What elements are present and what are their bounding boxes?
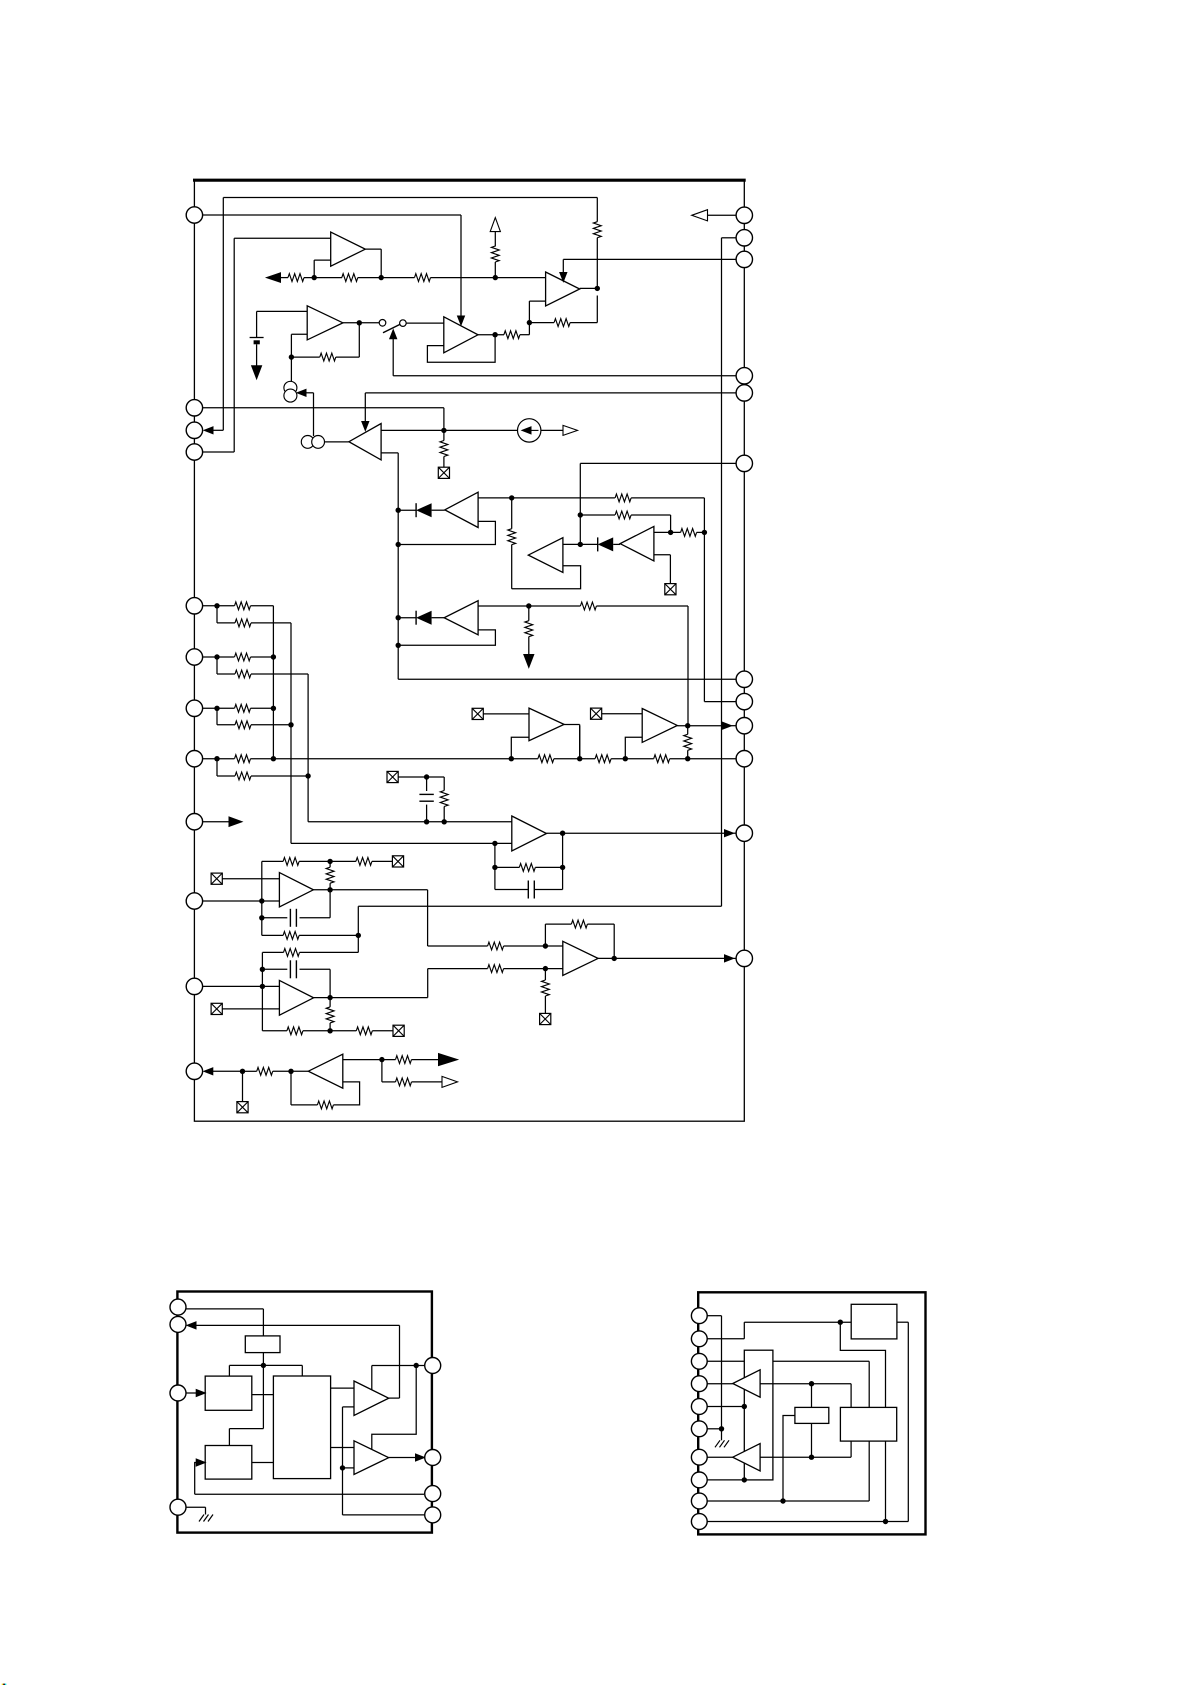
pin IC1-L2 <box>186 400 202 416</box>
wire IC3 p5 <box>707 1406 744 1408</box>
node V704 <box>702 530 707 535</box>
wire rail 843 <box>291 842 512 844</box>
op-amp U9 <box>444 601 478 635</box>
pin IC1-L7 <box>186 700 202 716</box>
resistor R26 <box>284 949 359 957</box>
resistor R4 <box>491 246 499 278</box>
wire U2 plus input <box>257 311 308 337</box>
pin IC1-L11 <box>186 978 202 994</box>
node IC3 p5 <box>742 1404 747 1409</box>
wire U3 feedback <box>427 335 495 363</box>
op-amp U16 <box>308 1054 343 1088</box>
wire U2 output <box>343 322 379 324</box>
node l6 <box>214 654 235 674</box>
wire U13 out <box>313 890 487 946</box>
pin IC1-L1 <box>186 207 202 223</box>
arrow into CS1 <box>297 389 314 436</box>
arrow into U4 top <box>560 259 567 281</box>
wire pin r3 to U4 <box>563 258 736 260</box>
node c1 top <box>419 774 444 791</box>
node u14 fb <box>327 1028 356 1033</box>
arrow pin l9 stub <box>203 817 242 827</box>
wire pin l10 <box>203 900 280 902</box>
node d3-fb <box>396 643 401 648</box>
arrow pin r1 out <box>692 210 736 221</box>
wire IC3 p6 <box>707 1428 721 1430</box>
pin IC1-R12 <box>736 950 752 966</box>
resistor R15 <box>580 602 688 726</box>
node U3 out <box>478 332 504 337</box>
arrow VEE down <box>252 366 262 379</box>
node l7 <box>214 706 235 725</box>
block VCO tall <box>744 1350 773 1480</box>
pin IC1-L8 <box>186 751 202 767</box>
arrow VCC up <box>490 218 500 247</box>
switch SW1 <box>379 320 406 333</box>
node row3-a <box>526 603 531 620</box>
node u13 out <box>327 887 332 892</box>
resistor R20 <box>440 777 448 822</box>
pin IC1-R1 <box>736 207 752 223</box>
pin IC1-R2 <box>736 230 752 246</box>
node c1 bot <box>424 819 429 824</box>
wire U13 fb row <box>262 861 330 935</box>
resistor R27 <box>326 1007 334 1031</box>
resistor R22 <box>283 858 299 866</box>
wire pin l6 row <box>203 656 235 658</box>
wire U9 row <box>478 605 580 607</box>
wire U5 fb to vertical <box>381 453 398 679</box>
pin IC1-L4 <box>186 444 202 460</box>
wire U15 out <box>598 955 736 962</box>
op-amp U7 mid <box>528 538 563 573</box>
terminal X10 <box>540 1013 551 1024</box>
resistor Ra6 <box>235 653 274 661</box>
arrow into pin l3 <box>204 427 223 434</box>
wire REG right <box>897 1322 908 1521</box>
wire U14 out <box>314 969 488 998</box>
wire U16 out row <box>343 1059 396 1061</box>
terminal X6 <box>211 873 279 884</box>
resistor R35 <box>291 1101 333 1109</box>
wire feedback top rail <box>223 198 597 431</box>
node IC2 a <box>229 1363 302 1376</box>
node rail-c <box>493 275 498 280</box>
terminal X11 <box>237 1102 248 1113</box>
node amp2 in <box>340 1465 354 1470</box>
resistor R12 row2 <box>615 511 671 532</box>
resistor R14 <box>525 621 533 655</box>
amp IC2-A1 <box>354 1381 389 1415</box>
wire osc bottom <box>262 1353 264 1366</box>
pin IC3-8 <box>691 1472 707 1488</box>
pin IC1-R11 <box>736 825 752 841</box>
resistor R11 row1 <box>615 494 704 702</box>
IC1 block outline <box>193 180 746 1121</box>
resistor R29 <box>356 1027 393 1035</box>
resistor R19 <box>684 726 692 759</box>
wire U7 to diode <box>563 543 598 545</box>
arrow VEE2 down <box>524 655 534 668</box>
op-amp U2 <box>307 306 343 340</box>
node U2 fb <box>289 354 320 381</box>
node IC3 p8 <box>742 1477 747 1482</box>
wire DIV2 out <box>252 1462 274 1464</box>
wire IC3 p7 <box>707 1456 733 1458</box>
node u14 in <box>260 984 265 989</box>
node u14 out <box>327 995 332 1007</box>
wire IC2 p1 to osc <box>186 1309 263 1336</box>
wire U14 row1030 <box>262 1030 287 1032</box>
wire CS2 to U5 <box>325 441 349 443</box>
node d3 <box>396 615 417 620</box>
resistor R9 <box>440 441 448 468</box>
terminal X9 <box>393 1025 404 1036</box>
node IC2 r1 <box>372 1363 419 1450</box>
wire pin l11 <box>203 985 280 987</box>
wire IC3 p1 gnd rail <box>707 1316 721 1429</box>
arrow into pin l12 <box>204 1068 243 1075</box>
wire IC3 p8 <box>707 1479 744 1481</box>
pin IC1-L9 <box>186 814 202 830</box>
amp B feedback loop <box>512 566 581 589</box>
node rail758-b <box>577 726 582 762</box>
op-amp U13 <box>279 873 313 907</box>
pin IC3-9 <box>691 1493 707 1509</box>
node va7 <box>271 706 276 711</box>
current source CS1 <box>284 381 297 402</box>
node rail758-c <box>623 737 643 761</box>
wire IC3 p9 <box>707 1441 869 1501</box>
wire U10 out <box>564 725 580 759</box>
resistor R21 <box>519 864 562 872</box>
ground IC2 <box>199 1515 213 1522</box>
resistor R18 <box>654 755 745 763</box>
node d2 <box>578 542 583 547</box>
op-amp U6 <box>445 492 478 527</box>
resistor Ra5 <box>235 602 274 610</box>
node u15 in2 <box>543 966 548 980</box>
wire IC2 gnd <box>186 1507 205 1514</box>
resistor R10 <box>508 529 516 589</box>
wire IC2 r1 row <box>372 1366 424 1391</box>
arrow rail left out <box>267 273 289 283</box>
pin IC1-R9 <box>736 718 752 734</box>
resistor R36 <box>396 1056 439 1064</box>
node d1 <box>396 508 417 513</box>
node u12 fb <box>492 865 519 870</box>
resistor R17 <box>595 755 654 763</box>
node u15 in1 <box>543 924 572 949</box>
pin IC1-L5 <box>186 598 202 614</box>
diode D3 <box>416 611 444 625</box>
pin IC1-R6 <box>736 455 752 471</box>
node u12 out <box>560 831 565 890</box>
pin IC2-L2 <box>170 1316 186 1332</box>
node va8 <box>271 756 276 761</box>
resistor R5 <box>320 323 360 361</box>
node rail758-a <box>509 737 529 761</box>
capacitor C1 <box>419 794 433 821</box>
wire switch to U3 <box>406 322 444 324</box>
IC2 block outline <box>177 1292 432 1533</box>
node IC3 c <box>809 1381 814 1407</box>
pin IC3-7 <box>691 1449 707 1465</box>
wire IC2 r3 row <box>195 1493 424 1495</box>
node u13 in <box>259 898 264 903</box>
resistor R34 <box>257 1067 309 1075</box>
wire pin l2 to U5 out <box>203 408 444 431</box>
pin IC1-R10 <box>736 751 752 767</box>
wire rail 758 left <box>273 758 511 760</box>
node r20 bot <box>442 819 447 824</box>
pin IC1-R4 <box>736 368 752 384</box>
resistor R25 <box>283 932 358 940</box>
wire U2 minus input <box>291 334 307 357</box>
wire A2 input row <box>760 1441 851 1457</box>
wire row2 <box>580 463 744 544</box>
wire pin1 to U3b arrow vertical <box>203 215 461 318</box>
pin IC1-R7 <box>736 671 752 687</box>
node u16 b <box>288 1069 293 1105</box>
resistor R3 <box>415 274 431 282</box>
op-amp U5 <box>349 424 381 460</box>
op-amp U1 <box>331 232 366 266</box>
pin IC1-R8 <box>736 693 752 709</box>
wire U8 top input <box>654 531 705 533</box>
wire U6 fb loop <box>398 521 495 544</box>
resistor Rb8 <box>235 772 308 780</box>
node loop935 <box>356 933 361 938</box>
diode D2 <box>598 537 620 551</box>
op-amp U4 <box>546 272 580 306</box>
resistor Rb7 <box>235 721 291 729</box>
node u14 cap <box>260 967 288 972</box>
node row2-a <box>578 512 615 517</box>
op-amp U8 right <box>620 526 654 561</box>
pin IC2-R3 <box>425 1486 441 1502</box>
terminal X8 <box>211 1003 279 1014</box>
node u15 out <box>612 956 617 961</box>
resistor R28 <box>287 1027 330 1035</box>
pin IC1-L12 <box>186 1063 202 1079</box>
resistor Rb6 <box>235 670 308 678</box>
wire V2 vertical <box>290 623 292 844</box>
resistor R6 <box>504 323 530 339</box>
ground IC3 <box>715 1440 729 1447</box>
wire U16 fb <box>333 1082 359 1105</box>
node d1-fb <box>396 542 401 547</box>
wire IC3 p2 net <box>707 1322 851 1339</box>
node rail758-d <box>685 756 690 761</box>
wire pin l7 row <box>203 707 235 709</box>
wire rail 821 <box>308 821 512 823</box>
resistor R16 <box>511 755 595 763</box>
resistor R31 row968 <box>488 965 563 973</box>
pin IC2-L3 <box>170 1385 186 1401</box>
block FIL small <box>795 1407 829 1423</box>
wire V1 vertical <box>272 606 274 759</box>
terminal X4 <box>591 708 643 719</box>
pin IC3-3 <box>691 1353 707 1369</box>
node rail-a <box>304 275 342 280</box>
capacitor C4 <box>290 960 330 997</box>
terminal X7 <box>392 856 403 867</box>
resistor R2 <box>342 274 358 282</box>
capacitor C2 <box>495 881 563 899</box>
block REG <box>851 1304 897 1339</box>
pin IC3-10 <box>691 1514 707 1530</box>
pin IC1-L10 <box>186 893 202 909</box>
wire pin l4 <box>203 451 235 453</box>
wire core to amp1 <box>331 1387 354 1389</box>
op-amp U11 <box>642 709 677 743</box>
terminal X3 <box>472 708 529 719</box>
node row1-a <box>509 495 514 529</box>
wire FIL left <box>783 1416 795 1502</box>
pin IC3-2 <box>691 1331 707 1347</box>
node IC3 gnd <box>719 1426 724 1440</box>
block DIV2 <box>205 1446 252 1480</box>
op-amp U15 <box>563 941 598 975</box>
block DIV1 <box>205 1376 252 1410</box>
resistor R23 <box>356 858 393 866</box>
wire U5 output row <box>381 429 517 431</box>
resistor R30 row946 <box>488 942 563 950</box>
arrow switch control <box>390 330 745 376</box>
wire U13 row935 <box>262 934 283 936</box>
diode D1 <box>416 503 445 517</box>
pin IC3-6 <box>691 1421 707 1437</box>
pin IC3-4 <box>691 1376 707 1392</box>
terminal X1 <box>438 467 449 478</box>
wire DIV1 out <box>252 1394 274 1396</box>
block PLL mid <box>840 1407 896 1441</box>
wire pin l5 row <box>203 605 235 607</box>
wire U9 fb loop <box>398 630 495 645</box>
node l8 <box>214 756 235 776</box>
node U2 out <box>357 320 362 325</box>
scan artifact mark <box>2 1684 7 1685</box>
node IC3 b <box>838 1320 886 1408</box>
pin IC2-R2 <box>425 1450 441 1466</box>
node u16 out <box>379 1057 395 1082</box>
pin IC2-R4 <box>425 1507 441 1523</box>
block OSC <box>245 1336 280 1353</box>
node U4 out <box>595 238 600 291</box>
wire U11 out to pin r9 <box>677 722 736 729</box>
wire IC3 p10 <box>707 1521 908 1523</box>
node u13 cap <box>259 915 287 920</box>
op-amp U10 <box>529 708 564 741</box>
resistor R8 <box>593 198 601 238</box>
arrow into DIV1 <box>186 1390 205 1397</box>
pin IC1-R3 <box>736 251 752 267</box>
arrow into DIV2 <box>195 1459 206 1494</box>
amp IC3-A1 <box>733 1370 760 1397</box>
node IC3 e <box>780 1498 785 1503</box>
wire U4 output <box>580 287 598 289</box>
resistor R1 <box>288 274 304 282</box>
node l5 <box>214 603 235 623</box>
resistor R24 <box>326 861 334 889</box>
pin IC1-R5 <box>736 385 752 401</box>
pin IC2-L4 <box>170 1499 186 1515</box>
wire U1 output <box>365 249 381 278</box>
arrow into U3 top <box>458 316 465 325</box>
resistor R37 <box>396 1078 443 1086</box>
wire bottom rail 679 <box>398 678 744 680</box>
battery B1 <box>250 338 264 367</box>
wire rail to U3a <box>431 277 546 279</box>
node amp10 out <box>685 723 690 728</box>
arrow into IC2 p2 <box>187 1322 400 1398</box>
node u13 fb <box>327 859 356 864</box>
node IC3 d <box>809 1423 814 1460</box>
resistor Ra7 <box>235 704 274 712</box>
node ampC-in <box>668 530 673 535</box>
pin IC1-L6 <box>186 649 202 665</box>
node va6 <box>271 654 276 659</box>
resistor Rb5 <box>235 619 291 627</box>
arrow out solid <box>439 1054 458 1066</box>
terminal X5 <box>387 771 419 782</box>
wire core to amp2 <box>331 1447 354 1449</box>
wire U12 out <box>547 830 737 837</box>
wire U6 row1 <box>478 497 615 499</box>
wire IC3 p3 <box>707 1361 869 1407</box>
node mix <box>527 301 554 325</box>
block CORE <box>273 1376 330 1479</box>
wire pin r8 link <box>704 701 736 703</box>
capacitor C3 <box>290 890 330 927</box>
amp IC3-A2 <box>733 1444 760 1471</box>
node vb8 <box>305 773 310 778</box>
resistor Ra8 <box>235 755 274 763</box>
wire amp2 out <box>389 1454 425 1461</box>
wire amp1 out <box>389 1397 400 1399</box>
node u12 minus <box>492 841 497 890</box>
node u12 fb2 <box>560 865 565 870</box>
wire IC2 mid vertical <box>229 1365 263 1445</box>
wire U14 row952 <box>262 952 283 1030</box>
node IC3 f <box>883 1441 888 1524</box>
wire U8 bottom to X2 <box>654 555 671 583</box>
wire pin r2 to loop <box>722 238 737 907</box>
node U5 out <box>441 428 446 441</box>
wire pin l8 row <box>203 758 235 760</box>
current mirror CS2 <box>301 436 324 449</box>
pin IC2-L1 <box>170 1299 186 1315</box>
pin IC3-5 <box>691 1399 707 1415</box>
arrow out open <box>442 1076 458 1087</box>
op-amp U14 <box>279 980 313 1015</box>
node u16 a <box>240 1069 257 1102</box>
resistor R32 <box>571 920 614 958</box>
arrow into U5 top <box>362 393 369 431</box>
amp IC2-A2 <box>354 1441 389 1475</box>
wire loop r2 horizontal <box>358 906 721 952</box>
wire amp1 lower in <box>343 1407 425 1515</box>
wire IC3 p4 <box>707 1383 733 1385</box>
pin IC2-R1 <box>425 1358 441 1374</box>
IC3 block outline <box>698 1292 925 1534</box>
wire U1 minus input <box>314 260 331 278</box>
current source CS3 <box>518 419 541 442</box>
resistor R7 <box>554 296 597 327</box>
resistor R33 <box>542 980 550 1013</box>
op-amp U3 <box>444 317 478 353</box>
